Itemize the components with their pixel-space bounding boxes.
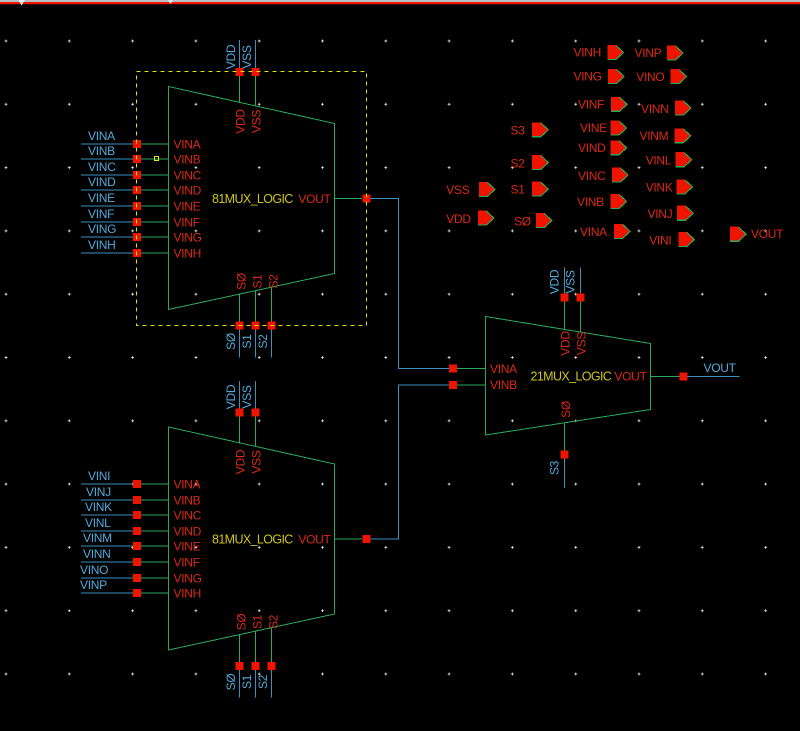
- I1 pin stub VDD: [239, 417, 241, 443]
- I0 instance origin marker: [155, 157, 159, 161]
- svg-text:VSS: VSS: [240, 45, 254, 68]
- svg-text:VINC: VINC: [578, 169, 606, 183]
- svg-text:VINN: VINN: [83, 547, 110, 561]
- svg-text:VINC: VINC: [174, 509, 202, 523]
- wire net VINO (to I1.VING): [81, 577, 133, 579]
- I1 pin stub S2: [271, 628, 273, 662]
- wire net net1 (I0.VOUT to I2.VINA): [371, 199, 450, 369]
- I2 pin stub VDD: [564, 302, 566, 330]
- svg-text:VINJ: VINJ: [86, 485, 111, 499]
- svg-text:VINF: VINF: [578, 97, 604, 111]
- wire net net2 (I1.VOUT to I2.VINB): [371, 385, 450, 539]
- cursor marker 1: [19, 0, 26, 6]
- svg-text:VDD: VDD: [548, 269, 562, 294]
- sheet pin symbol VIND: [611, 140, 628, 155]
- I2 pin square VSS: [577, 294, 585, 302]
- I1 pin square VINF: [133, 558, 141, 566]
- svg-text:VINL: VINL: [85, 516, 111, 530]
- I1 pin square S0: [236, 662, 244, 670]
- I2 pin stub VINA: [457, 368, 486, 370]
- svg-text:VOUT: VOUT: [298, 533, 331, 547]
- I1 pin square S1: [252, 662, 260, 670]
- I1 pin stub VINH: [141, 592, 169, 594]
- svg-text:SØ: SØ: [559, 401, 573, 418]
- I1 pin stub VINA: [141, 483, 169, 485]
- svg-text:S1: S1: [250, 274, 264, 289]
- I0 pin square VDD: [236, 68, 244, 76]
- I0 pin stub VINA: [141, 143, 169, 145]
- sheet pin symbol VOUT: [730, 227, 747, 242]
- mux I1 81MUX_LOGIC symbol body: [169, 427, 335, 650]
- I0 pin square VING: [133, 233, 141, 241]
- I0 pin stub VSS: [255, 76, 257, 106]
- I0 pin square VINA: [133, 140, 141, 148]
- sheet pin symbol VINC: [612, 168, 629, 183]
- svg-text:VINI: VINI: [649, 233, 671, 247]
- I1 pin stub VINF: [141, 561, 169, 563]
- sheet pin symbol S1: [532, 182, 549, 197]
- wire net VINI (to I1.VINA): [81, 483, 133, 485]
- svg-text:VINK: VINK: [646, 181, 673, 195]
- wire net VINM (to I1.VINE): [81, 545, 133, 547]
- I0 pin stub VINF: [141, 221, 169, 223]
- mux I0 81MUX_LOGIC symbol body: [169, 87, 335, 310]
- svg-text:VSS: VSS: [240, 385, 254, 408]
- svg-text:VINF: VINF: [174, 556, 200, 570]
- I0 pin stub VIND: [141, 189, 169, 191]
- I2 pin stub S0: [564, 423, 566, 451]
- sheet pin symbol VINI: [678, 232, 695, 247]
- wire net VDD (I1 top): [239, 381, 241, 409]
- svg-text:81MUX_LOGIC: 81MUX_LOGIC: [212, 192, 293, 206]
- svg-text:VINM: VINM: [83, 531, 112, 545]
- svg-text:S2: S2: [266, 274, 280, 289]
- svg-text:S1: S1: [240, 334, 254, 349]
- I1 pin square VINA: [133, 480, 141, 488]
- I0 pin stub VDD: [239, 76, 241, 102]
- svg-text:SØ: SØ: [514, 214, 531, 228]
- I0 pin square VINC: [133, 171, 141, 179]
- svg-text:VDD: VDD: [233, 109, 247, 134]
- svg-text:VINC: VINC: [88, 160, 116, 174]
- svg-text:VINJ: VINJ: [648, 207, 673, 221]
- svg-text:VSS: VSS: [446, 183, 469, 197]
- wire net S2 (I0 bottom): [271, 330, 273, 358]
- I1 pin stub VOUT: [335, 538, 363, 540]
- cursor marker 2: [168, 0, 174, 4]
- svg-text:SØ: SØ: [234, 273, 248, 290]
- I2 pin square VOUT: [680, 373, 688, 381]
- svg-text:SØ: SØ: [224, 674, 238, 691]
- I1 pin square VIND: [133, 527, 141, 535]
- I2 pin square S0: [561, 451, 569, 459]
- svg-text:VINE: VINE: [88, 191, 115, 205]
- sheet pin symbol VINP: [667, 46, 684, 61]
- sheet pin symbol VINF: [611, 97, 628, 112]
- svg-text:VINO: VINO: [80, 563, 108, 577]
- svg-text:VDD: VDD: [446, 212, 471, 226]
- svg-text:VINC: VINC: [174, 169, 202, 183]
- I1 pin stub VINE: [141, 545, 169, 547]
- I0 pin square VINF: [133, 218, 141, 226]
- I2 pin square VINB: [449, 381, 457, 389]
- sheet pin symbol VINM: [675, 128, 692, 143]
- I1 pin square VING: [133, 574, 141, 582]
- wire net VOUT: [688, 376, 740, 378]
- sheet pin symbol VSS: [479, 182, 496, 197]
- svg-text:VINA: VINA: [174, 138, 201, 152]
- wire net VINB (to I0.VINB): [81, 158, 133, 160]
- wire net S3 (I2 select): [564, 459, 566, 489]
- wire net VSS (I2 top): [580, 268, 582, 294]
- svg-text:VINH: VINH: [174, 247, 201, 261]
- wire net VSS (I1 top): [255, 381, 257, 409]
- I0 pin stub S0: [239, 294, 241, 321]
- I1 pin square VINE: [133, 542, 141, 550]
- wire net VIND (to I0.VIND): [81, 189, 133, 191]
- svg-text:VINH: VINH: [88, 238, 115, 252]
- wire net VDD (I0 top): [239, 40, 241, 68]
- I1 pin stub VIND: [141, 530, 169, 532]
- I0 pin stub VINH: [141, 252, 169, 254]
- wire net VINK (to I1.VINC): [81, 514, 133, 516]
- svg-text:VDD: VDD: [233, 449, 247, 474]
- svg-text:VSS: VSS: [564, 270, 578, 293]
- svg-text:VIND: VIND: [88, 175, 116, 189]
- sheet pin symbol VINH: [608, 45, 625, 60]
- I0 pin square S2: [268, 322, 276, 330]
- wire net VINP (to I1.VINH): [81, 592, 133, 594]
- svg-text:S2: S2: [256, 334, 270, 349]
- svg-text:VOUT: VOUT: [704, 361, 737, 375]
- svg-text:S2: S2: [266, 614, 280, 629]
- I2 pin square VDD: [561, 294, 569, 302]
- svg-text:VINA: VINA: [174, 478, 201, 492]
- svg-text:VIND: VIND: [578, 141, 606, 155]
- svg-text:VINN: VINN: [641, 102, 668, 116]
- svg-text:SØ: SØ: [224, 333, 238, 350]
- svg-text:VINK: VINK: [85, 500, 112, 514]
- sheet pin symbol VINK: [676, 179, 693, 194]
- svg-text:S2: S2: [256, 674, 270, 689]
- I1 pin stub S1: [255, 631, 257, 662]
- svg-text:VINP: VINP: [635, 46, 662, 60]
- svg-text:VING: VING: [574, 69, 602, 83]
- I1 pin square VINB: [133, 496, 141, 504]
- I1 pin stub VINB: [141, 499, 169, 501]
- wire net VDD (I2 top): [564, 268, 566, 294]
- wire net VING (to I0.VING): [81, 236, 133, 238]
- svg-text:VINH: VINH: [574, 46, 601, 60]
- svg-text:VINE: VINE: [580, 121, 607, 135]
- wire net S0 (I1 bottom): [239, 670, 241, 698]
- svg-text:S2: S2: [511, 156, 526, 170]
- I0 pin square VINB: [133, 155, 141, 163]
- I0 pin square VOUT: [363, 195, 371, 203]
- svg-text:VINE: VINE: [174, 200, 201, 214]
- I0 pin square VINH: [133, 249, 141, 257]
- sheet pin symbol VINO: [671, 69, 688, 84]
- I1 pin stub VINC: [141, 514, 169, 516]
- svg-text:VINA: VINA: [490, 362, 517, 376]
- svg-text:VINB: VINB: [577, 195, 604, 209]
- svg-text:VINH: VINH: [174, 587, 201, 601]
- I1 pin square S2: [268, 662, 276, 670]
- I0 pin square S0: [236, 322, 244, 330]
- I0 pin stub VINE: [141, 205, 169, 207]
- I2 pin stub VOUT: [651, 376, 680, 378]
- svg-text:VING: VING: [88, 222, 116, 236]
- selection box (dashed) around I0: [137, 72, 367, 326]
- I1 pin stub VING: [141, 577, 169, 579]
- svg-text:VINM: VINM: [640, 129, 669, 143]
- I0 pin stub VING: [141, 236, 169, 238]
- svg-text:VOUT: VOUT: [614, 370, 647, 384]
- svg-text:S1: S1: [250, 614, 264, 629]
- I1 pin stub S0: [239, 635, 241, 662]
- wire net VSS (I0 top): [255, 40, 257, 68]
- sheet pin symbol VINE: [611, 121, 628, 136]
- svg-text:VINB: VINB: [490, 378, 517, 392]
- svg-text:VING: VING: [174, 572, 202, 586]
- svg-text:VSS: VSS: [249, 110, 263, 133]
- I1 pin square VINC: [133, 511, 141, 519]
- svg-text:S1: S1: [511, 183, 526, 197]
- svg-text:VIND: VIND: [174, 184, 202, 198]
- svg-text:VINO: VINO: [636, 70, 664, 84]
- wire net VINA (to I0.VINA): [81, 143, 133, 145]
- I0 pin stub VINC: [141, 174, 169, 176]
- I0 pin square VSS: [252, 68, 260, 76]
- svg-text:S3: S3: [511, 124, 526, 138]
- wire net VINE (to I0.VINE): [81, 205, 133, 207]
- wire net VINH (to I0.VINH): [81, 252, 133, 254]
- I0 pin stub VINB: [141, 158, 169, 160]
- sheet pin symbol VINA: [614, 224, 631, 239]
- wire net S1 (I0 bottom): [255, 330, 257, 358]
- I2 pin stub VSS: [580, 302, 582, 333]
- svg-text:VING: VING: [174, 231, 202, 245]
- svg-text:VOUT: VOUT: [751, 227, 784, 241]
- wire net VINF (to I0.VINF): [81, 221, 133, 223]
- window top bar: [0, 0, 800, 2]
- wire net S1 (I1 bottom): [255, 670, 257, 698]
- wire net VINC (to I0.VINC): [81, 174, 133, 176]
- wire net VINJ (to I1.VINB): [81, 499, 133, 501]
- wire net VINN (to I1.VINF): [81, 561, 133, 563]
- svg-text:VINB: VINB: [174, 494, 201, 508]
- svg-text:VINP: VINP: [80, 578, 107, 592]
- svg-text:VDD: VDD: [224, 44, 238, 69]
- svg-text:VINB: VINB: [174, 153, 201, 167]
- I1 pin square VSS: [252, 409, 260, 417]
- svg-text:S1: S1: [240, 674, 254, 689]
- svg-text:21MUX_LOGIC: 21MUX_LOGIC: [531, 370, 612, 384]
- wire net S2 (I1 bottom): [271, 670, 273, 698]
- svg-text:VINE: VINE: [174, 540, 201, 554]
- svg-text:VINI: VINI: [88, 469, 110, 483]
- svg-text:81MUX_LOGIC: 81MUX_LOGIC: [212, 533, 293, 547]
- I0 pin stub VOUT: [335, 198, 363, 200]
- svg-text:SØ: SØ: [234, 614, 248, 631]
- sheet pin symbol S2: [532, 155, 549, 170]
- svg-text:S3: S3: [548, 460, 562, 475]
- sheet pin symbol VINN: [675, 101, 692, 116]
- svg-text:VINA: VINA: [580, 225, 607, 239]
- sheet pin symbol S0: [536, 213, 553, 228]
- svg-text:VSS: VSS: [574, 332, 588, 355]
- I1 pin stub VSS: [255, 417, 257, 447]
- svg-text:VINB: VINB: [88, 144, 115, 158]
- sheet pin symbol S3: [532, 122, 549, 137]
- mux I2 21MUX_LOGIC symbol body: [486, 317, 651, 436]
- I1 pin square VINH: [133, 589, 141, 597]
- svg-text:VINL: VINL: [646, 154, 672, 168]
- I0 pin square VIND: [133, 186, 141, 194]
- I0 pin square S1: [252, 322, 260, 330]
- I2 pin square VINA: [449, 365, 457, 373]
- svg-text:VINF: VINF: [88, 207, 114, 221]
- sheet pin symbol VING: [608, 69, 625, 84]
- svg-text:VSS: VSS: [249, 450, 263, 473]
- sheet pin symbol VDD: [478, 211, 495, 226]
- sheet pin symbol VINB: [611, 194, 628, 209]
- wire net VINL (to I1.VIND): [81, 530, 133, 532]
- I0 pin stub S2: [271, 287, 273, 321]
- I2 pin stub VINB: [457, 384, 486, 386]
- svg-text:VINA: VINA: [88, 129, 115, 143]
- svg-text:VOUT: VOUT: [298, 192, 331, 206]
- wire net S0 (I0 bottom): [239, 330, 241, 358]
- svg-text:VIND: VIND: [174, 525, 202, 539]
- svg-text:VDD: VDD: [224, 384, 238, 409]
- I1 pin square VOUT: [363, 535, 371, 543]
- sheet pin symbol VINL: [676, 152, 693, 167]
- I0 pin square VINE: [133, 202, 141, 210]
- I0 pin stub S1: [255, 291, 257, 322]
- svg-text:VINF: VINF: [174, 216, 200, 230]
- I1 pin square VDD: [236, 409, 244, 417]
- sheet pin symbol VINJ: [677, 206, 694, 221]
- svg-text:VDD: VDD: [558, 331, 572, 356]
